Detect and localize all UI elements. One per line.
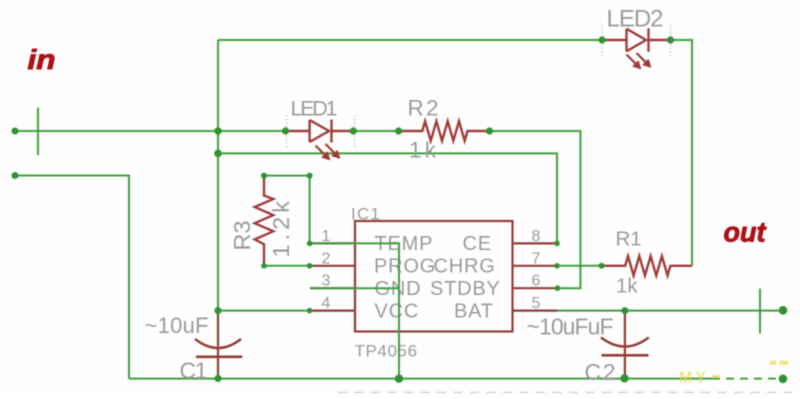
junction dot in minus port	[12, 172, 19, 179]
wire BAT pin5 to out	[558, 310, 784, 312]
svg-text:LED2: LED2	[607, 6, 664, 33]
resistor R2 body	[399, 121, 490, 141]
svg-text:in: in	[28, 44, 56, 75]
svg-text:LED1: LED1	[291, 97, 338, 121]
wire top rail to LED2	[218, 39, 602, 41]
wire LED1 cathode to R2	[353, 130, 399, 132]
IC1 pin 1 stub	[310, 242, 355, 244]
svg-text:R3: R3	[229, 220, 255, 250]
junction dot pin7	[554, 263, 560, 269]
IC1 box body	[355, 221, 513, 332]
junction dot C2 bottom	[620, 374, 628, 382]
svg-text:C2: C2	[585, 359, 616, 385]
wire LED2 cathode to corner	[671, 40, 693, 266]
svg-text:C1: C1	[180, 358, 208, 384]
svg-text:PROG: PROG	[374, 256, 436, 278]
junction dot R2 left	[395, 127, 402, 134]
capacitor C2 lead	[624, 311, 626, 379]
junction dot LED1 anode	[282, 127, 289, 134]
junction dot IN+ riser top tee	[214, 127, 222, 135]
wire CE feed	[218, 153, 557, 243]
wire R3 bottom to PROG	[264, 265, 310, 267]
in port pin marker	[37, 108, 39, 156]
junction dot C1 bottom	[214, 375, 221, 382]
wire bottom ground rail dashed section	[712, 378, 779, 380]
IC1 pin 8 stub	[513, 242, 558, 244]
wire VCC pin4 feed	[218, 310, 310, 312]
wire bottom ground rail	[129, 378, 712, 380]
junction dot in port	[12, 128, 19, 135]
wire IN+ riser at x218	[217, 40, 219, 311]
svg-text:VCC: VCC	[375, 301, 420, 323]
svg-text:1.2k: 1.2k	[268, 197, 294, 257]
resistor R1 body	[602, 256, 692, 276]
svg-text:R1: R1	[616, 228, 642, 251]
capacitor C2 straight plate	[602, 354, 649, 357]
svg-text:BAT: BAT	[454, 301, 494, 323]
svg-text:CE: CE	[463, 233, 492, 255]
junction dot LED2 anode	[598, 36, 605, 43]
junction dot C2 top	[621, 307, 628, 314]
junction dot LED2 cathode	[667, 36, 674, 43]
junction dot pin1	[307, 241, 313, 247]
junction dot pin6	[555, 285, 561, 291]
svg-text:~10uF: ~10uF	[145, 313, 209, 338]
IC1 pin 5 stub	[513, 310, 558, 312]
svg-text:out: out	[724, 217, 768, 248]
junction dot ground drop bottom	[395, 375, 403, 383]
wire R2 to STDBY vertical	[490, 131, 581, 288]
junction dot R3 top right corner	[307, 173, 313, 179]
junction dot pin8	[554, 241, 560, 247]
junction dot R3 top	[261, 173, 267, 179]
svg-text:1k: 1k	[409, 138, 437, 163]
LED2 tiny pad text marks	[602, 25, 671, 57]
capacitor C2 curved plate	[601, 338, 649, 347]
capacitor C1 curved plate	[195, 339, 241, 348]
capacitor C1 straight plate	[196, 355, 242, 358]
watermark text fragment	[679, 361, 788, 387]
junction dot R2 right	[486, 127, 493, 134]
junction dot R3 bottom	[261, 263, 267, 269]
wire R3 top link	[264, 176, 310, 244]
junction dot pin2	[307, 263, 313, 269]
junction dot ground out corner	[779, 375, 788, 384]
wire CHRG pin7 to R1	[557, 265, 602, 267]
svg-text:STDBY: STDBY	[430, 278, 501, 300]
out port pin marker	[759, 289, 761, 334]
diode LED1 body	[285, 120, 353, 143]
svg-text:MY: MY	[679, 370, 709, 387]
junction dot LED1 cathode	[350, 127, 357, 134]
LED2 emission arrows	[627, 53, 651, 68]
junction dot pin4	[307, 308, 313, 314]
wire net IN+ main horizontal	[15, 130, 285, 132]
IC1 pin 3 stub	[310, 287, 355, 289]
crop artifact dashed line bottom	[338, 391, 800, 393]
wire pin1 TEMP to ground drop	[310, 243, 399, 378]
wire GND pin3 link	[311, 287, 399, 289]
capacitor C1 lead	[217, 311, 219, 378]
junction dot out port	[779, 306, 788, 315]
svg-text:R2: R2	[408, 96, 439, 121]
svg-text:~10uFuF: ~10uFuF	[527, 314, 614, 340]
LED1 emission arrows	[316, 144, 340, 159]
junction dot CE feed tee	[214, 150, 222, 158]
svg-text:1k: 1k	[616, 275, 638, 298]
LED1 tiny pad text marks	[287, 115, 355, 148]
IC1 pin 4 stub	[310, 310, 355, 312]
wire IN- to ground rail	[15, 176, 129, 379]
resistor R3 body vertical	[255, 176, 274, 266]
IC1 pin 6 stub	[513, 287, 558, 289]
junction dot R1 left	[599, 263, 605, 269]
svg-text:IC1: IC1	[351, 206, 381, 224]
junction dot C1 top	[214, 307, 221, 314]
svg-text:CHRG: CHRG	[434, 256, 496, 278]
IC1 pin 7 stub	[513, 265, 558, 267]
IC1 pin 2 stub	[310, 265, 355, 267]
diode LED2 body	[602, 28, 671, 52]
svg-text:TP4056: TP4056	[355, 342, 418, 361]
